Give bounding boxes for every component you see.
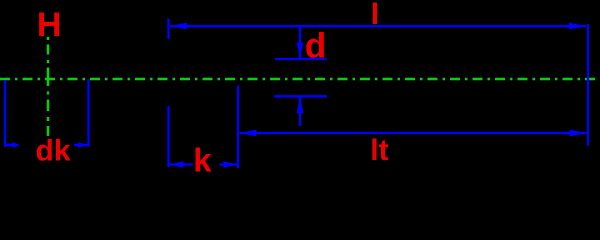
svg-text:H: H — [37, 6, 62, 44]
svg-text:d: d — [305, 26, 326, 65]
svg-text:l: l — [371, 0, 379, 31]
svg-text:dk: dk — [36, 134, 71, 167]
svg-text:k: k — [193, 141, 212, 177]
svg-text:lt: lt — [370, 134, 388, 167]
